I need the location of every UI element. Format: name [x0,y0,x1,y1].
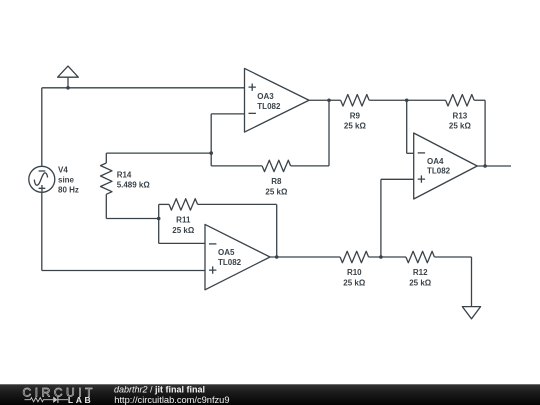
svg-text:25 kΩ: 25 kΩ [344,122,367,131]
svg-text:R13: R13 [453,111,468,120]
svg-text:dabrthr2 / jit final final: dabrthr2 / jit final final [114,385,205,395]
svg-text:5.489 kΩ: 5.489 kΩ [117,181,151,190]
svg-text:sine: sine [58,175,75,184]
svg-text:25 kΩ: 25 kΩ [449,122,472,131]
svg-text:25 kΩ: 25 kΩ [172,226,195,235]
svg-text:R14: R14 [117,171,132,180]
svg-text:R9: R9 [350,111,361,120]
svg-text:LAB: LAB [68,395,93,405]
svg-text:OA5: OA5 [218,248,235,257]
svg-text:V4: V4 [58,165,68,174]
svg-text:25 kΩ: 25 kΩ [265,187,288,196]
svg-text:TL082: TL082 [257,102,281,111]
svg-text:R11: R11 [176,216,191,225]
svg-text:R12: R12 [413,268,428,277]
svg-text:80 Hz: 80 Hz [58,185,79,194]
svg-text:25 kΩ: 25 kΩ [343,278,366,287]
svg-text:TL082: TL082 [427,167,451,176]
svg-text:25 kΩ: 25 kΩ [409,278,432,287]
svg-text:OA4: OA4 [427,157,444,166]
svg-text:R8: R8 [271,177,282,186]
svg-text:TL082: TL082 [218,258,242,267]
svg-text:http://circuitlab.com/c9nfzu9: http://circuitlab.com/c9nfzu9 [114,395,229,405]
svg-text:R10: R10 [347,268,362,277]
svg-text:OA3: OA3 [257,92,274,101]
